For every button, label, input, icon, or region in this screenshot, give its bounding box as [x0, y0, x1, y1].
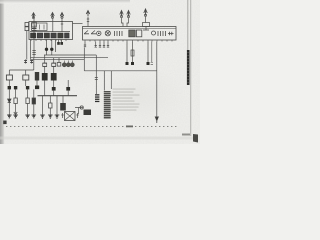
wire chain4 down — [33, 89, 35, 98]
relay K3 body — [51, 73, 57, 81]
wire G1 stub — [58, 58, 60, 63]
connector C2 bullet — [50, 48, 53, 51]
wire K2 down to bus B4 — [44, 81, 46, 96]
bottom right corner mark — [193, 134, 198, 143]
switch S7 body — [43, 63, 47, 66]
component block left of legend — [95, 94, 99, 102]
relay K2 body — [42, 73, 48, 81]
connector bullets under left box — [59, 40, 62, 43]
wire long drop right side — [156, 42, 158, 119]
diode D2 body — [131, 50, 134, 56]
wire K3 down — [53, 81, 55, 88]
wire chain4 to ground — [33, 104, 35, 115]
wire X5 into U1 — [122, 18, 124, 27]
right relay/lamp box — [73, 17, 177, 124]
paper mottle blob 2 — [95, 67, 185, 123]
resistor R1 — [14, 98, 17, 104]
ground E3 — [25, 115, 30, 118]
lamp L4 inside U1 — [105, 31, 110, 36]
wire S7 down to relay K2 — [44, 67, 46, 74]
legend description text (light lines) — [113, 89, 140, 111]
wire link in U1 — [143, 27, 149, 31]
connector C9 bullet — [52, 87, 56, 91]
connector X4 arrow above right box — [86, 11, 89, 16]
bottom scan streak — [0, 137, 196, 140]
motor M2 box with X — [65, 112, 76, 121]
wire branch to legend item 2 — [103, 71, 105, 91]
connector C5 bullet — [26, 86, 29, 89]
legend key text block (dark numbers column) — [104, 91, 111, 118]
gauge G3 circle — [66, 63, 70, 67]
connector C8 on mid chain2 — [52, 63, 57, 67]
wire chain2 to ground — [15, 104, 17, 115]
fold mark left margin — [3, 121, 6, 125]
resistor R2 — [26, 98, 29, 104]
relay K1 internal contacts — [35, 25, 44, 30]
connector X3 arrow above left box — [60, 13, 63, 19]
wire bus B2 — [31, 57, 109, 59]
wire bus B1 — [44, 54, 96, 56]
connector plug P2 — [30, 60, 33, 64]
terminal block TB1 line1 — [95, 94, 99, 95]
bus inside left box — [30, 31, 70, 33]
wire C1 to bus — [46, 51, 48, 55]
terminal row T2 inside U1 — [158, 31, 166, 36]
terminal row T1 inside U1 — [115, 31, 123, 36]
wire drop from U1 to connector C19 — [147, 42, 149, 63]
wire K1 pin to connector C1 — [46, 40, 48, 49]
wire X7 into U1 — [145, 17, 147, 23]
wire drop to lamp L1 — [8, 70, 10, 75]
connector C17 bullet — [126, 62, 129, 65]
switch S2 — [37, 33, 42, 38]
wire bus B4 (bottom) — [38, 95, 78, 97]
wire C10 up — [67, 80, 69, 87]
fuse holder F4 left of box — [25, 27, 29, 31]
ground E2 — [13, 115, 18, 118]
relay K1 coil sub-box — [32, 23, 48, 31]
lamp L6 — [80, 106, 83, 109]
wire fuse column to plug P1 — [26, 31, 28, 60]
wire U1 pin stub C13 — [95, 42, 97, 48]
switch S6 — [65, 33, 70, 38]
resistor R4 — [49, 103, 52, 108]
right page edge line (second) — [189, 0, 192, 136]
diode D1 — [8, 99, 11, 103]
ground E1 — [7, 114, 12, 118]
switch S1 — [31, 33, 36, 38]
scan left edge shadow — [0, 0, 5, 144]
switch S9 inside U1 — [84, 31, 89, 34]
paper mottle blob 1 — [5, 30, 115, 90]
lamp L1 housing — [6, 75, 12, 80]
wire chain2 down — [15, 89, 17, 98]
paper noise texture — [0, 0, 200, 144]
connector X5 arrow above right box — [120, 11, 123, 18]
connector C3 bullet — [8, 86, 11, 89]
wire U1 pin stub C16 — [107, 42, 109, 48]
wire horizontal node B run — [84, 70, 157, 72]
bottom-left connector bullets row — [8, 86, 40, 90]
wire drop from B4 to heater H1 — [62, 96, 64, 103]
sub box on top of U1 — [143, 23, 150, 27]
sensor G1 body — [57, 63, 61, 67]
wire chain3 to ground — [27, 104, 29, 115]
wire drop from U1 to connector C17 — [126, 42, 128, 63]
wire L1 to connector — [8, 80, 10, 86]
connector C18 bullet — [131, 62, 134, 65]
switch S5 — [58, 33, 63, 38]
gauge G2 circle — [62, 63, 66, 67]
wire drop to lamp L2 — [25, 70, 27, 75]
connector C7 on mid chain — [43, 63, 48, 67]
right page edge line (upper grey) — [187, 0, 188, 50]
connector stub C20 — [151, 42, 153, 65]
wire X4 into U1 — [87, 17, 89, 27]
pin ticks under left box — [31, 40, 66, 42]
paper mottle blob 3 — [50, 4, 150, 36]
wire S8 up — [53, 58, 55, 63]
page number text — [182, 134, 190, 136]
motor M1 body — [35, 72, 39, 81]
wire left box to node A — [30, 40, 32, 60]
wire drop from U1 through diode D2 — [132, 42, 134, 63]
connector X7 arrow above right box — [144, 9, 147, 16]
gauge G4 circle — [70, 63, 74, 67]
wire U1 pin stub C15 — [103, 42, 105, 48]
connector arrow end of long drop — [155, 117, 158, 121]
wire S5 pin down — [55, 40, 57, 53]
wire drop from B4 to ground E5 — [42, 96, 44, 115]
switch S4 — [51, 33, 56, 38]
wire node A down to junction row — [33, 58, 35, 71]
ground E5 — [40, 115, 45, 118]
connector X1 arrow top of left chain — [32, 13, 35, 19]
wire M1 down — [36, 81, 38, 87]
wire C9 to bus B4 — [53, 91, 55, 96]
connector pins on branch — [95, 78, 98, 80]
wire S7 up — [44, 55, 46, 63]
ground E6 — [48, 115, 53, 118]
fuse holder F3 left of box — [25, 23, 29, 27]
ground triangles mid — [41, 115, 58, 118]
connector plug P1 — [24, 60, 27, 64]
wire M2 left pin — [61, 113, 63, 118]
wire M2 right pin — [76, 113, 78, 118]
wire K1 pin to connector C2 — [51, 40, 53, 49]
wire R4 to ground E6 — [49, 108, 51, 115]
lamp L5 inside U1 — [152, 31, 156, 35]
small lamp circuit above legend — [75, 106, 91, 115]
terminal block TB1 line3 — [95, 99, 99, 100]
chapter tab rotated text strip — [187, 50, 190, 85]
connector C6 bullet — [35, 86, 39, 90]
wire U1 pin stub C14 — [99, 42, 101, 48]
lamp L3 inside U1 — [97, 31, 101, 35]
wire C10 to bus B4 — [67, 91, 69, 96]
dotted separation line — [6, 126, 176, 128]
terminal block TB1 line4 — [95, 101, 99, 102]
ground triangles — [8, 115, 35, 118]
wire horizontal feeder to left chains — [9, 69, 34, 71]
arrow mark on chain2 — [14, 112, 17, 115]
wire drop from B4 through R4 — [49, 96, 51, 103]
bus inside U1 top — [83, 27, 177, 29]
lamp L3 filament dot — [98, 33, 100, 35]
switch row S1..S6 inside left box (dark cluster) — [31, 33, 70, 38]
switch S11 body — [84, 110, 92, 116]
wire chain1 down — [8, 89, 10, 99]
switch S3 — [44, 33, 49, 38]
terminal block TB1 line2 — [95, 96, 99, 97]
wire long drop to node B — [83, 48, 85, 71]
wire chain1 to ground — [8, 103, 10, 115]
wire X6 into U1 — [127, 18, 129, 27]
scan top edge shadow — [0, 0, 130, 4]
wire branch down to sensor block — [95, 55, 97, 94]
lamp L4 cross — [106, 32, 110, 36]
ground E7 — [55, 115, 60, 118]
connector X2 arrow above left box — [51, 13, 54, 19]
connector C1 bullet — [45, 48, 48, 51]
wire S8 down to relay K3 — [53, 67, 55, 74]
connector pair C11 inside U1 — [168, 32, 174, 35]
switch S8 body — [52, 63, 56, 66]
relay K5 inside U1 — [136, 30, 141, 37]
fuse F2 in left chain — [32, 29, 37, 31]
wire jumper left box to right box — [73, 23, 83, 25]
connector C19 bullet — [147, 62, 150, 65]
wire U1 pin to connector C12 — [84, 42, 86, 47]
wire from X2 into left box — [52, 19, 54, 32]
relay K4 inside U1 — [129, 30, 135, 37]
chapter tab text texture — [188, 52, 189, 83]
connector C10 bullet — [66, 87, 70, 91]
relay box K1 (left box) outline — [29, 22, 73, 40]
wire bus B3 — [31, 59, 85, 61]
switch S10 inside U1 — [91, 31, 96, 34]
wire G2 stub up — [64, 61, 72, 63]
wire from X1 down left chain — [33, 19, 35, 58]
wire C2 to bus — [51, 51, 53, 55]
wire drop from B4 to ground E7 — [56, 96, 58, 115]
connector X6 arrow above right box — [127, 11, 130, 18]
page background — [0, 0, 200, 144]
ground E4 — [32, 115, 37, 118]
pin ticks under U1 — [85, 40, 172, 42]
connector pins on left chain — [32, 51, 35, 55]
wire lamp feed — [75, 108, 83, 115]
instrument cluster U1 outline — [83, 27, 177, 41]
wire L2 to connector — [25, 80, 27, 86]
connector C4 bullet — [14, 86, 17, 89]
wire branch to legend item — [110, 71, 112, 89]
wire chain3 down — [27, 89, 29, 98]
lamp L2 housing — [23, 75, 29, 80]
resistor R3 — [32, 98, 35, 104]
heater H1 body — [60, 103, 66, 111]
fuse F1 in left chain — [32, 22, 37, 27]
wire from X3 into left box — [61, 19, 63, 32]
